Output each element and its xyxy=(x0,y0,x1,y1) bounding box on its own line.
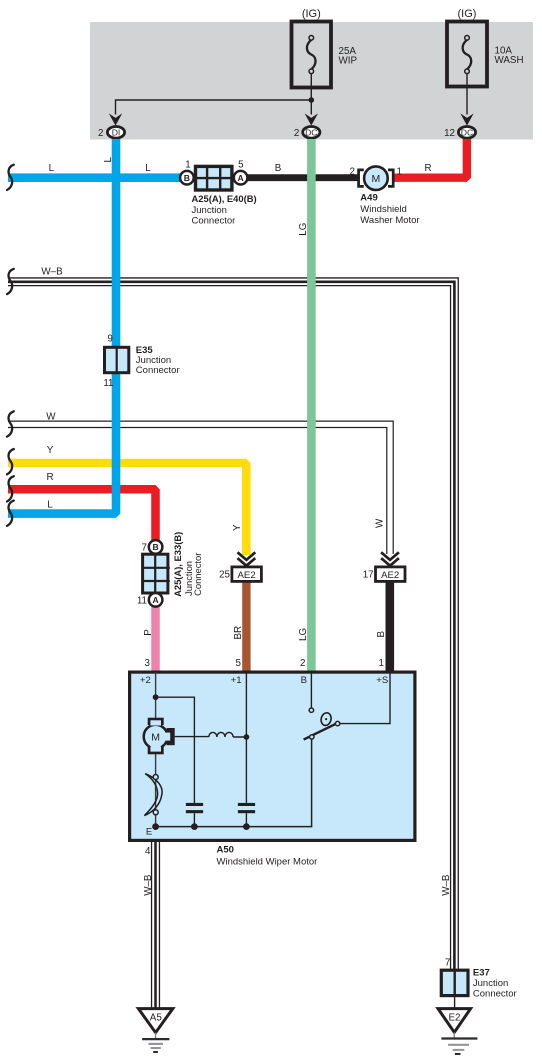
svg-text:9: 9 xyxy=(107,334,112,345)
wire E37 to ground xyxy=(454,997,456,1008)
connector AE2 pin17 box xyxy=(376,567,406,582)
svg-text:E: E xyxy=(146,826,152,837)
svg-text:5: 5 xyxy=(238,160,244,171)
svg-text:2: 2 xyxy=(350,166,355,177)
svg-text:R: R xyxy=(425,163,432,174)
wire P pink xyxy=(151,606,160,670)
wire L blue row1 xyxy=(8,173,184,182)
svg-text:1: 1 xyxy=(397,166,402,177)
park switch cam ellipse xyxy=(320,712,333,727)
wire W-B left vertical xyxy=(151,842,160,1008)
svg-text:Y: Y xyxy=(47,445,54,456)
E line xyxy=(156,739,312,826)
arrowhead DC2 xyxy=(305,113,318,125)
junction dot xyxy=(244,734,250,740)
svg-text:R: R xyxy=(46,472,53,483)
svg-text:2: 2 xyxy=(300,658,305,669)
wire LG green vertical xyxy=(307,139,316,671)
terminal A pin5 xyxy=(234,171,248,185)
connector AE2 pin25 box xyxy=(232,567,262,582)
ground E2 stem xyxy=(453,1032,455,1038)
svg-text:AE2: AE2 xyxy=(381,570,399,581)
wire B black row1 xyxy=(240,174,360,181)
svg-text:(IG): (IG) xyxy=(458,8,477,20)
fuse 10A WASH xyxy=(447,22,487,87)
svg-text:A49: A49 xyxy=(360,192,377,203)
svg-text:W–B: W–B xyxy=(441,874,452,896)
svg-text:+1: +1 xyxy=(231,675,242,686)
svg-text:Windshield Wiper Motor: Windshield Wiper Motor xyxy=(217,856,318,867)
ground A5 stem xyxy=(155,1033,157,1039)
fuse 25A WIP xyxy=(292,22,332,88)
wire Y yellow xyxy=(8,463,246,555)
wiper motor box A50 xyxy=(130,672,415,840)
svg-text:WIP: WIP xyxy=(339,55,358,66)
svg-text:12: 12 xyxy=(444,128,455,139)
svg-text:A: A xyxy=(237,173,243,183)
svg-text:WASH: WASH xyxy=(495,55,524,66)
wire B black vertical xyxy=(385,580,394,671)
svg-text:P: P xyxy=(143,629,154,636)
connector oval DC pin12 xyxy=(458,127,475,139)
svg-text:B: B xyxy=(376,631,387,638)
wire pin5 +1 vertical xyxy=(245,672,247,803)
park switch arm xyxy=(304,723,339,740)
svg-text:Y: Y xyxy=(232,524,243,531)
svg-text:L: L xyxy=(49,163,55,174)
ground A5 triangle xyxy=(138,1009,172,1033)
svg-text:BR: BR xyxy=(233,626,244,640)
wire squiggle W xyxy=(7,411,14,436)
wire pin2 B to contact xyxy=(310,672,312,708)
connector oval DC pin2 xyxy=(303,127,320,139)
connector AE2 pin25 chevron arrow xyxy=(238,552,256,565)
terminal B pin7 xyxy=(149,540,163,554)
svg-text:7: 7 xyxy=(142,543,147,554)
svg-text:1: 1 xyxy=(379,658,384,669)
svg-text:DC: DC xyxy=(305,127,317,137)
wire squiggle L bottom xyxy=(7,501,14,526)
wire motor bottom to E xyxy=(155,744,157,827)
svg-text:(IG): (IG) xyxy=(302,8,321,20)
junction connector E35 xyxy=(105,346,129,374)
svg-text:W–B: W–B xyxy=(143,874,154,896)
svg-text:A5: A5 xyxy=(150,1013,163,1024)
svg-text:A50: A50 xyxy=(217,844,234,855)
motor M xyxy=(144,718,175,755)
inductor coil xyxy=(209,732,247,737)
cam contact circles xyxy=(153,775,158,780)
svg-text:L: L xyxy=(47,500,53,511)
wire to DC(2) xyxy=(310,100,312,115)
svg-text:B: B xyxy=(184,173,190,183)
svg-text:W: W xyxy=(375,518,386,528)
svg-text:W–B: W–B xyxy=(41,267,63,278)
junction connector A25(A),E33(B) box xyxy=(142,554,170,593)
svg-text:1: 1 xyxy=(185,160,190,171)
capacitor C1 xyxy=(186,803,203,827)
wire branch to capacitor1 xyxy=(156,697,195,803)
svg-text:2: 2 xyxy=(294,128,299,139)
svg-text:M: M xyxy=(151,731,160,743)
svg-text:+S: +S xyxy=(376,675,388,686)
wire squiggle W-B xyxy=(7,269,14,294)
svg-text:Junction: Junction xyxy=(192,205,227,216)
svg-text:11: 11 xyxy=(103,378,113,389)
svg-text:E37: E37 xyxy=(473,968,490,979)
svg-text:11: 11 xyxy=(137,595,147,606)
arm pivot circles xyxy=(310,735,314,739)
svg-text:L: L xyxy=(103,157,114,163)
junction dot xyxy=(153,694,159,700)
svg-text:7: 7 xyxy=(445,957,450,968)
ground E2 triangle xyxy=(438,1009,471,1033)
svg-text:A25(A), E40(B): A25(A), E40(B) xyxy=(192,193,257,204)
wire motor to coil xyxy=(175,736,209,738)
connector AE2 pin17 chevron arrow xyxy=(381,552,399,565)
svg-text:Windshield: Windshield xyxy=(360,204,406,215)
E line junction dots xyxy=(152,823,159,830)
svg-text:DI: DI xyxy=(112,127,121,137)
wire squiggle R xyxy=(7,476,14,501)
svg-text:4: 4 xyxy=(145,846,151,857)
svg-text:LG: LG xyxy=(298,628,309,641)
wire L blue vertical + bottom horizontal xyxy=(8,139,116,514)
wire branch to DI xyxy=(116,100,312,115)
svg-text:AE2: AE2 xyxy=(238,570,256,581)
wire R row1 xyxy=(393,139,467,178)
svg-text:DC: DC xyxy=(461,127,473,137)
arrowhead DI xyxy=(109,113,122,125)
wire squiggle L row1 xyxy=(7,165,14,190)
wire R middle xyxy=(8,489,156,540)
wire from fuse1 down xyxy=(310,74,312,100)
washer motor A49 xyxy=(359,166,394,190)
svg-text:LG: LG xyxy=(298,223,309,236)
svg-text:E2: E2 xyxy=(449,1012,461,1023)
svg-text:5: 5 xyxy=(236,658,242,669)
svg-text:Washer Motor: Washer Motor xyxy=(360,215,419,226)
wire pin3 to motor xyxy=(155,672,157,730)
svg-text:Connector: Connector xyxy=(192,553,203,596)
junction connector E37 xyxy=(441,969,468,996)
svg-text:W: W xyxy=(46,411,56,422)
capacitor C2 xyxy=(238,803,255,827)
svg-text:Connector: Connector xyxy=(473,989,517,1000)
svg-text:Connector: Connector xyxy=(136,365,180,376)
wire W-B horizontal + right vertical xyxy=(8,282,454,969)
svg-text:B: B xyxy=(275,163,282,174)
ground E2 symbol xyxy=(441,1037,477,1039)
terminal B pin1 xyxy=(180,171,194,185)
junction connector A25(A),E40(B) box xyxy=(195,166,232,190)
wire fuse2 to DC(12) xyxy=(466,74,468,115)
wire squiggle Y xyxy=(7,449,14,474)
svg-text:Junction: Junction xyxy=(473,978,508,989)
svg-text:2: 2 xyxy=(98,128,103,139)
svg-text:L: L xyxy=(145,163,151,174)
svg-text:17: 17 xyxy=(363,569,374,580)
arrowhead DC12 xyxy=(460,113,473,125)
wire switch to +S xyxy=(340,672,390,724)
svg-text:A: A xyxy=(152,595,158,605)
svg-text:M: M xyxy=(372,173,381,185)
svg-text:3: 3 xyxy=(145,658,151,669)
svg-text:25: 25 xyxy=(219,569,230,580)
svg-text:A25(A), E33(B): A25(A), E33(B) xyxy=(172,532,183,597)
svg-text:Connector: Connector xyxy=(192,216,236,227)
park switch contact B xyxy=(309,708,313,712)
svg-text:B: B xyxy=(301,675,307,686)
wire W horizontal + vertical xyxy=(8,424,390,554)
terminal A pin11 xyxy=(149,593,163,607)
relay box (gray) xyxy=(90,22,533,140)
ground A5 symbol xyxy=(142,1038,169,1040)
connector oval DI pin2 xyxy=(107,127,124,139)
junction dot xyxy=(309,97,315,103)
svg-text:+2: +2 xyxy=(140,675,151,686)
svg-text:B: B xyxy=(152,542,158,552)
wire BR brown xyxy=(242,580,250,671)
cam crescent xyxy=(144,774,162,816)
